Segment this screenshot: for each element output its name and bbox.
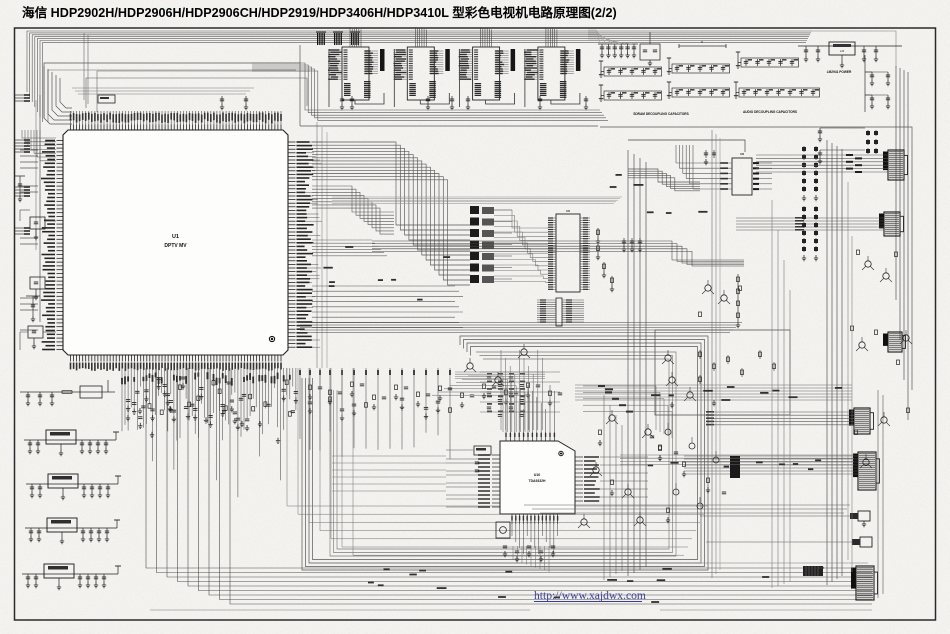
wire bottom staircase2 (287, 368, 708, 555)
transistor cluster A (464, 344, 530, 386)
connector CN1 right top (883, 150, 908, 180)
wire bottom staircase (146, 368, 872, 604)
capacitor row group1a (599, 61, 662, 77)
wire bus right vertical (878, 66, 908, 598)
svg-text:U10: U10 (534, 473, 541, 477)
capacitor row audio a (736, 52, 799, 68)
IC U1 right pin comb (289, 141, 323, 348)
plug P1 (700, 511, 870, 527)
bus tick cluster top-left (316, 32, 360, 45)
capacitor row audio b (734, 82, 820, 98)
wire bus into CN1 (756, 154, 888, 173)
connector CN4 right (853, 452, 880, 490)
component cluster x640 y430 (650, 423, 726, 523)
capacitor box left B (30, 277, 56, 300)
capacitor row group1b (599, 85, 662, 101)
wire nested loop inner (330, 352, 676, 556)
svg-text:LM2941 POWER: LM2941 POWER (827, 70, 852, 74)
wire bus gray band (332, 197, 622, 203)
capacitor cluster x600 (598, 44, 638, 58)
resistor chain R77 column (736, 274, 740, 328)
IC U4 SDRAM (459, 27, 515, 107)
IC U5 SDRAM (524, 27, 581, 107)
transistor cluster right low (851, 326, 913, 468)
svg-text:U1: U1 (172, 234, 179, 240)
IC U2 SDRAM (328, 27, 385, 107)
resistor pack column (470, 206, 512, 283)
audio amp cluster (655, 330, 790, 415)
components left of U10 (446, 446, 491, 472)
wire bus center horizontal (300, 323, 742, 333)
connector CN5 right bottom (851, 566, 878, 600)
IC U10 TDA9332H (446, 385, 648, 554)
svg-text:U8: U8 (740, 152, 744, 156)
small IC mid-right (628, 140, 772, 195)
transistor cluster right (699, 250, 898, 317)
capacitor cluster x622 (622, 238, 642, 252)
wire elbow bundle U10 top-left (432, 376, 529, 432)
components below U10 (496, 522, 555, 562)
capacitor box left A (20, 210, 56, 240)
wire bus top horizontal (27, 31, 896, 122)
wire bundle into U10 (332, 456, 446, 491)
wire verticals right link (848, 182, 852, 572)
component field below U1 (121, 368, 298, 497)
wire elbows into U1 left pins (22, 130, 56, 161)
wire stubs CN3 (706, 411, 854, 425)
IC U3 SDRAM (393, 27, 450, 107)
connector CN2 right (879, 212, 904, 236)
svg-text:LM: LM (840, 49, 845, 53)
filter cluster left (20, 380, 115, 406)
capacitor row group2a (667, 58, 730, 74)
left border stubs (15, 94, 30, 235)
wire bundle U1 right long (312, 286, 463, 328)
section box right (600, 127, 912, 390)
resistor array columns right (802, 146, 818, 261)
wire staircase upper right (628, 169, 700, 191)
net label blobs scatter (323, 174, 842, 603)
voltage regulator VR4 (22, 564, 121, 590)
IC U1 DPTV MV (63, 130, 288, 355)
wire bus right horizontals (575, 385, 854, 465)
svg-text:AUDIO DECOUPLING CAPACITORS: AUDIO DECOUPLING CAPACITORS (743, 110, 797, 114)
wire stubs CN4 (684, 456, 858, 478)
wire rows right of U10 (583, 385, 672, 438)
connector CN3 right mid (849, 408, 874, 434)
IC U1 top pin comb (70, 111, 282, 131)
wire nested loop big (302, 336, 708, 570)
svg-text:SDRAM DECOUPLING CAPACITORS: SDRAM DECOUPLING CAPACITORS (633, 112, 689, 116)
wire vertical bus center-right (628, 150, 646, 576)
capacitor row group2b (667, 82, 730, 98)
IC U1 bottom pin comb (70, 355, 282, 371)
wire bundle U1 right to top (312, 142, 470, 285)
capacitor left border (26, 296, 40, 322)
resistor cluster x600 (596, 228, 614, 292)
IC U1 left pin comb (41, 140, 64, 351)
wire bus left vertical (36, 66, 72, 322)
voltage regulator VR2 (26, 474, 121, 500)
wire bus bottom long (150, 563, 872, 610)
IC U1 left wires (20, 150, 38, 330)
wire fan sdram right (588, 30, 632, 44)
capacitor box x640 (640, 32, 660, 66)
capacitor left border2 (15, 176, 25, 202)
wire comb above U10 (455, 350, 545, 430)
wire horizontals y505 (524, 505, 850, 513)
hatch block bottom (803, 566, 823, 576)
memory bus staircase x305 (252, 63, 608, 120)
wire verticals x712 section (712, 130, 720, 578)
wire verticals x317 down (317, 122, 327, 368)
IC LM2941 power regulator (798, 42, 902, 74)
IC U1 top bus entry (72, 88, 254, 94)
voltage regulator VR3 (25, 518, 120, 544)
voltage regulator VR1 (24, 430, 119, 456)
wire fan center (494, 210, 548, 283)
wire staircase to right connectors (372, 241, 744, 266)
wire stubs CN2 (736, 217, 884, 231)
wire bundle U1 right mid2 (312, 240, 387, 256)
wire bundle U1 right mid (312, 186, 394, 234)
wire verticals x604 (604, 395, 622, 580)
wire verticals x770-790 (772, 200, 790, 588)
svg-text:DPTV MV: DPTV MV (164, 243, 187, 249)
svg-text:TDA9332H: TDA9332H (529, 479, 547, 483)
capacitor pair right top (818, 55, 890, 164)
transistor cluster mid-bottom (578, 410, 662, 528)
component cluster below U1 right (299, 368, 562, 459)
connector small right mid (883, 332, 906, 352)
wires below U10 to bottom bus (513, 546, 549, 572)
IC U6 memory center (548, 209, 590, 292)
svg-text:http://www.xajdwx.com: http://www.xajdwx.com (534, 589, 646, 602)
net line x680 (679, 40, 726, 48)
plug P2 (706, 537, 872, 547)
svg-text:U6: U6 (566, 209, 570, 213)
IC U7 comb block (537, 298, 584, 326)
wire vertical bus right (827, 140, 842, 585)
resistor chain pair x868 (866, 130, 878, 154)
decoupling caps above U1 (98, 95, 588, 110)
section box SDRAM (300, 45, 598, 126)
svg-text:海信 HDP2902H/HDP2906H/HDP2906CH: 海信 HDP2902H/HDP2906H/HDP2906CH/HDP2919/H… (22, 5, 617, 20)
capacitor box left C (20, 326, 56, 350)
